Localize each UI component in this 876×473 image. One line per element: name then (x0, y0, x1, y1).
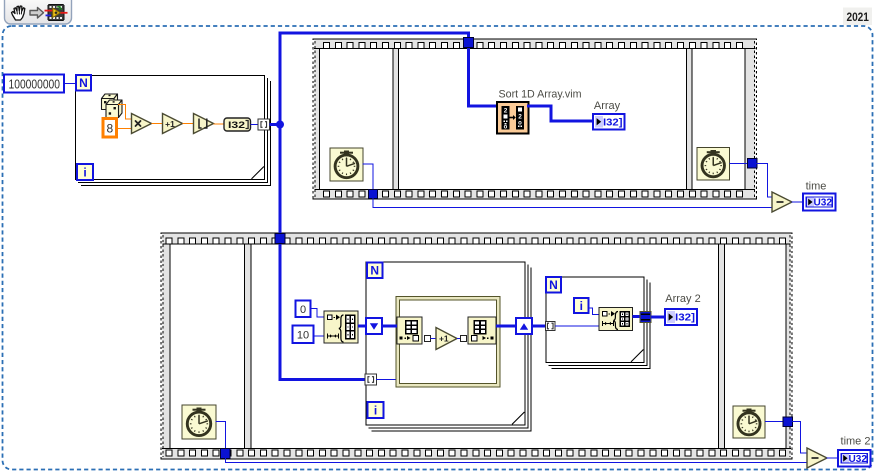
loop A auto-index tunnel (258, 119, 270, 130)
sequence A input tunnel (464, 38, 474, 48)
concatenating tunnel (640, 312, 651, 323)
loop B iteration terminal i (368, 402, 384, 418)
random number dice icon (102, 94, 123, 118)
svg-text:I32]: I32] (603, 116, 623, 128)
constant 0 (296, 301, 311, 318)
svg-text:i: i (374, 403, 377, 417)
wire tunnel to subtract 1 (757, 164, 772, 198)
ipe replace element node (461, 336, 467, 342)
tick count clock 3 (182, 405, 216, 439)
index array node (599, 308, 633, 331)
wire increment to floor (183, 123, 194, 125)
svg-text:time: time (806, 181, 827, 193)
svg-text:i: i (83, 165, 86, 179)
wire clock3 to tunnel (216, 422, 226, 450)
wire clock4 to tunnel (765, 421, 783, 423)
round-to-minus-infinity function (194, 114, 214, 134)
wire subtract1 to time (792, 201, 804, 203)
svg-text:U32: U32 (849, 453, 868, 465)
trunk bottom wire (280, 378, 365, 381)
constant 100000000 (4, 75, 64, 93)
svg-text:Array 2: Array 2 (665, 293, 700, 305)
shift register right (516, 318, 532, 334)
wire initialize array to shift register (358, 325, 366, 328)
wire drop into sequence A (467, 33, 470, 106)
wire clock2 to tunnel (730, 163, 749, 165)
for loop B border (366, 262, 525, 425)
trunk vertical wire (279, 32, 282, 381)
wire shift register to ipe (382, 325, 397, 328)
flat sequence A body (313, 39, 757, 199)
constant 8 (103, 119, 117, 138)
svg-text:8: 8 (106, 122, 113, 136)
run arrow icon (30, 8, 44, 19)
initialize array node (324, 311, 358, 343)
loop C count terminal N (546, 277, 561, 293)
svg-text:100000000: 100000000 (9, 77, 61, 91)
svg-text:2021: 2021 (846, 10, 869, 24)
subtract function 1 (772, 192, 792, 212)
wire tunnel to array 2 (651, 316, 665, 319)
loop B count terminal N (367, 263, 383, 279)
wire tunnel to index array (555, 325, 599, 327)
trunk top wire (279, 32, 470, 35)
wire sort to array indicator (529, 106, 594, 121)
svg-text:10: 10 (297, 330, 309, 342)
wire clock1 to tunnel (363, 164, 373, 190)
sequence A right tunnel (748, 159, 758, 169)
wire 0 to initialize array (311, 309, 325, 318)
wire subtract2 to time 2 (827, 457, 839, 459)
wire 10 to initialize array (314, 335, 325, 337)
loop B index tunnel (365, 374, 377, 385)
wire 8 to multiply (117, 128, 132, 130)
wire clock3 to subtract 2 (226, 459, 808, 463)
hand tool icon (12, 6, 25, 20)
svg-text:N: N (79, 76, 88, 90)
wire index array out (633, 315, 641, 318)
for loop A border (76, 76, 265, 180)
svg-text:+1: +1 (165, 119, 175, 129)
shift register left (366, 318, 382, 334)
wire junction (276, 121, 284, 129)
wire increment to replace (457, 338, 461, 340)
flat sequence B body (161, 233, 792, 459)
tick count clock 2 (697, 148, 730, 181)
loop A count terminal N (76, 75, 91, 91)
increment function (163, 114, 183, 134)
wire i to index array (589, 308, 600, 315)
for loop C border (546, 277, 644, 363)
sort 1d array node (497, 102, 529, 134)
ipe array index node (397, 317, 422, 344)
wire tunnel to subtract 2 (793, 422, 808, 454)
svg-text:o: o (504, 125, 508, 131)
svg-text:Array: Array (594, 100, 621, 112)
wire loop B to loop C (532, 325, 547, 328)
wire clock1 down to subtract (373, 199, 772, 208)
multiply function (132, 114, 152, 134)
svg-text:I32]: I32] (675, 312, 695, 324)
tick count clock 1 (330, 148, 363, 181)
in place element structure (396, 297, 500, 388)
svg-text:0: 0 (300, 304, 306, 316)
toolbar panel (5, 0, 72, 24)
svg-text:Sort 1D Array.vim: Sort 1D Array.vim (499, 89, 582, 101)
sequence B right tunnel (783, 417, 793, 427)
to-I32 conversion node (224, 118, 251, 131)
constant 10 (293, 326, 314, 344)
loop A iteration terminal i (77, 164, 93, 180)
wire I32 to tunnel (251, 124, 259, 126)
wire floor to I32 conversion (214, 123, 225, 125)
svg-text:time 2: time 2 (841, 436, 871, 448)
svg-text:2: 2 (518, 114, 522, 121)
svg-text:N: N (370, 264, 379, 278)
svg-text:I32: I32 (228, 120, 245, 131)
svg-text:N: N (549, 278, 558, 292)
thick array wire from loop A (270, 123, 282, 126)
wire ipe to shift register (496, 325, 516, 328)
increment function 2 (436, 328, 457, 350)
wire constant to N (64, 83, 76, 85)
wire to sort node (467, 105, 497, 108)
wire index to increment (431, 338, 437, 340)
version tag 2021 (843, 8, 872, 26)
vi file icon (45, 5, 68, 21)
loop C iteration terminal i (574, 298, 589, 313)
loop C index tunnel (546, 322, 556, 331)
sequence B bottom tunnel (221, 449, 231, 459)
sequence B input tunnel (275, 234, 285, 244)
svg-text:2: 2 (504, 108, 508, 115)
subtract function 2 (807, 448, 827, 468)
wire dice to multiply (119, 105, 132, 120)
wire multiply to increment (152, 123, 163, 125)
svg-text:U32: U32 (814, 197, 833, 209)
sequence A bottom tunnel (369, 190, 378, 199)
tick count clock 4 (733, 406, 765, 438)
wire tunnel to index node (377, 345, 404, 380)
svg-text:+1: +1 (439, 334, 449, 344)
svg-text:i: i (580, 299, 583, 313)
